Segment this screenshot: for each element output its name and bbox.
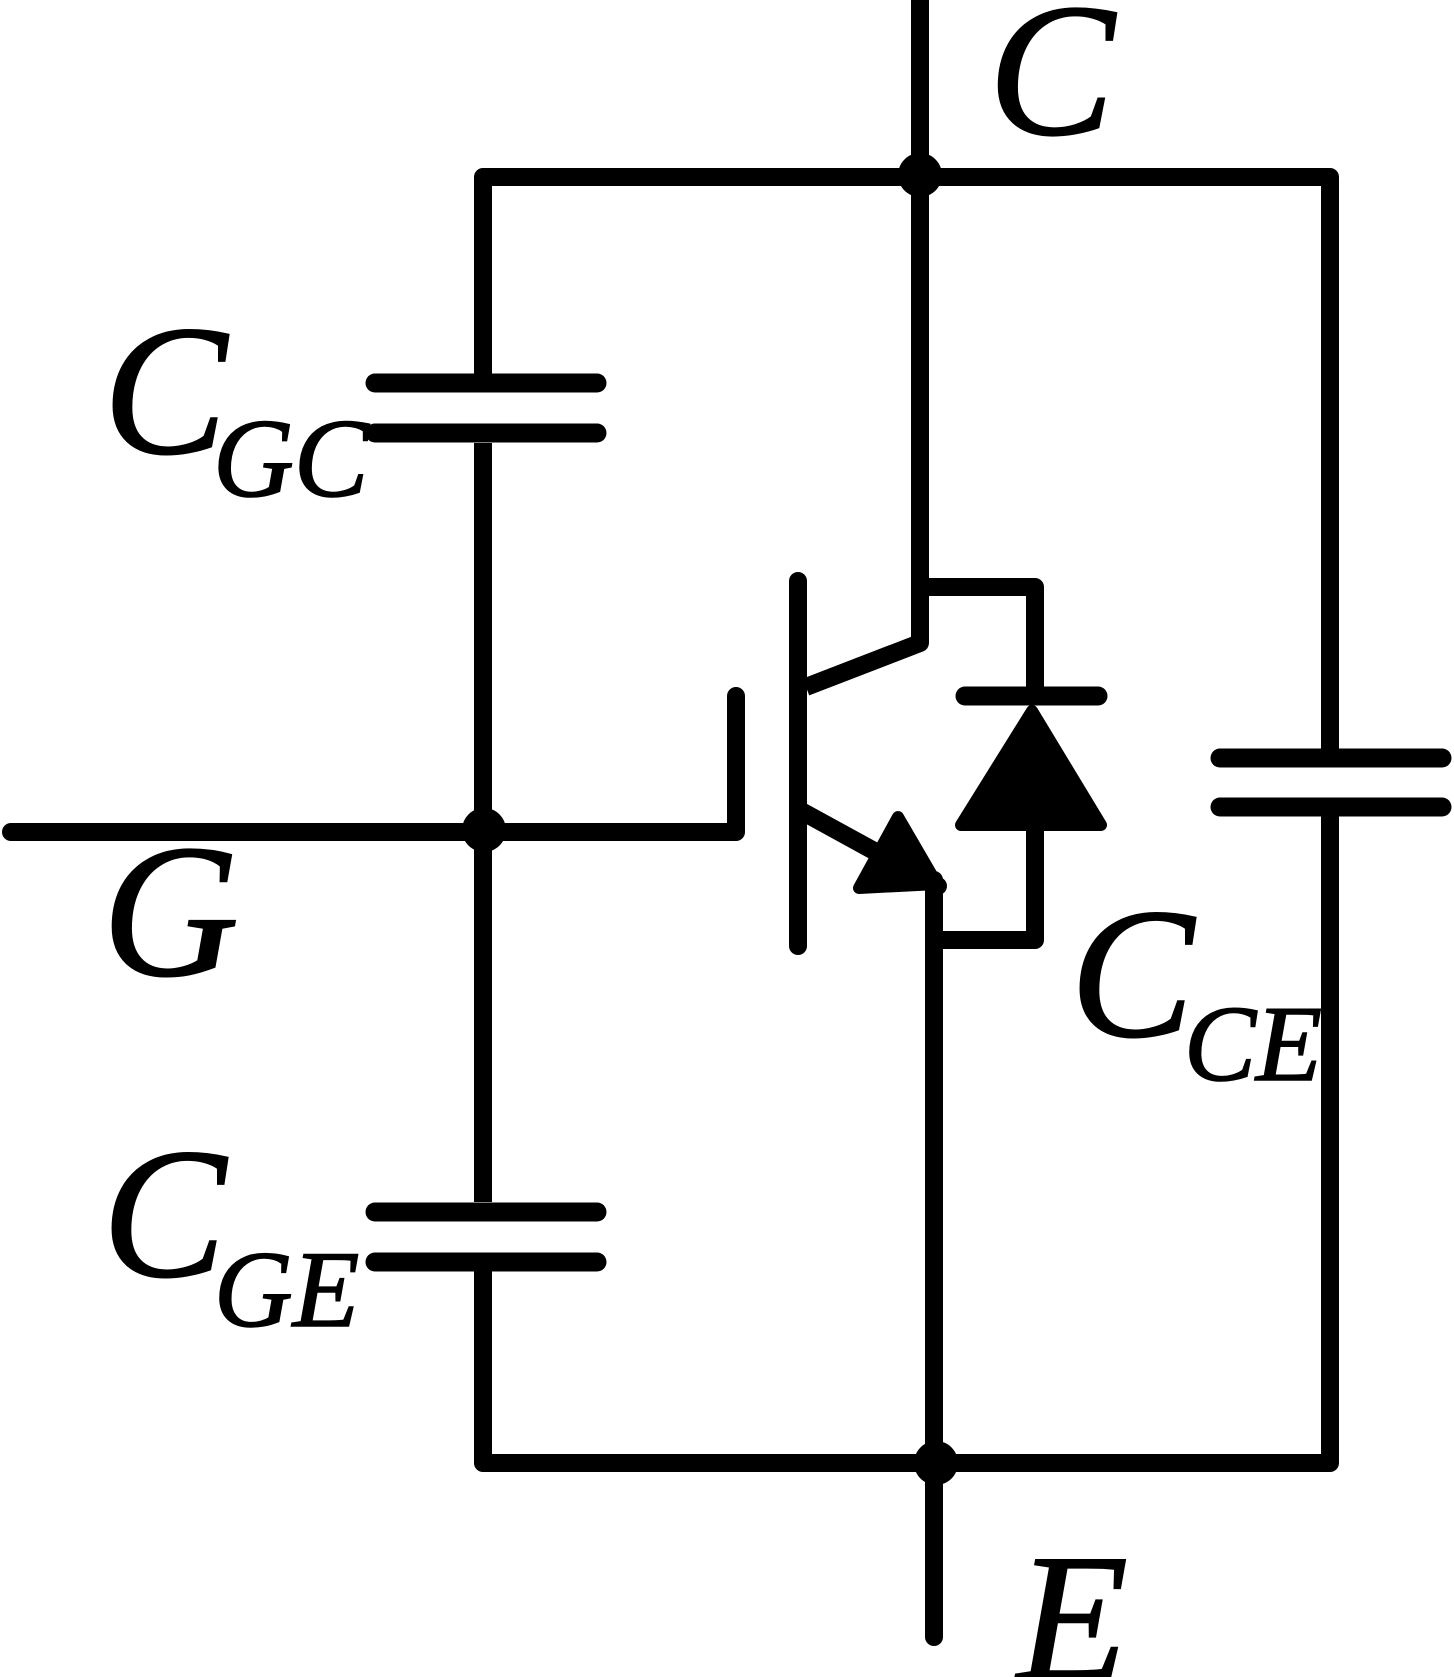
wire: G terminal lead and IGBT gate bar [11,696,736,832]
svg-text:E: E [1014,1518,1128,1677]
wire: diode anode lead and connector to emitter [934,822,1035,940]
svg-text:G: G [102,807,239,1017]
wire: IGBT emitter diagonal [803,812,938,886]
svg-text:C: C [103,288,229,494]
svg-text:GC: GC [213,397,370,521]
svg-text:CE: CE [1184,985,1322,1104]
capacitor CGE bottom plate [375,1253,597,1272]
node C junction dot [898,153,942,197]
wire: left upper lead, top rail, right upper lead [483,177,1330,750]
wire: emitter vertical, through E node, to E terminal [925,880,943,1637]
svg-text:C: C [988,0,1117,176]
capacitor CGC top plate [375,374,597,393]
node G junction dot [462,808,506,852]
IGBT emitter arrowhead [859,817,937,888]
wire: collector stub and diagonal into IGBT body [806,0,920,687]
capacitor CGC bottom plate [375,424,597,443]
wire: CGC bottom plate to G node to CGE top plate [474,443,492,1202]
capacitor CCE top plate [1220,749,1442,768]
svg-text:C: C [1070,871,1196,1077]
wire: collector to diode cathode connector [920,587,1035,690]
diode anode triangle [961,711,1101,825]
capacitor CGE top plate [375,1203,597,1222]
transistor IGBT body bar [789,581,807,946]
svg-text:GE: GE [214,1229,359,1350]
node E junction dot [914,1441,958,1485]
svg-text:C: C [102,1111,228,1317]
wire: CGE bottom lead, bottom rail, right lower lead [483,816,1330,1463]
diode cathode bar [965,687,1098,706]
capacitor CCE bottom plate [1220,798,1442,817]
